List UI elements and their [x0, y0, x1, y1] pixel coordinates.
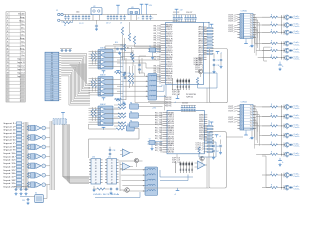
wire gates vertical bus: [120, 52, 122, 106]
svg-text:RB1: RB1: [168, 114, 175, 116]
svg-text:D3: D3: [51, 60, 53, 62]
svg-text:Input 3: Input 3: [4, 129, 17, 132]
svg-text:Input 12: Input 12: [17, 65, 25, 68]
wire resonator: [30, 196, 35, 198]
svg-text:PGD PGC: PGD PGC: [165, 103, 172, 105]
capacitor C17 C18 in M1: [212, 59, 213, 61]
svg-text:R: R: [204, 48, 205, 50]
svg-text:RX_TX2: RX_TX2: [155, 138, 162, 140]
svg-text:6: 6: [241, 27, 242, 29]
svg-text:16: 16: [6, 66, 8, 68]
svg-text:Input 10: Input 10: [4, 152, 17, 155]
wire header J3 stubs: [175, 161, 177, 173]
svg-text:RX_TX2: RX_TX2: [155, 150, 162, 152]
resistor R1: [63, 22, 71, 24]
svg-text:D1: D1: [51, 55, 53, 57]
svg-text:U14: U14: [108, 157, 111, 159]
connector table P2 top right: [237, 10, 255, 39]
power flag +5V: [116, 4, 120, 6]
connector J1: [56, 10, 65, 21]
svg-text:COLL_2: COLL_2: [196, 143, 204, 145]
svg-text:OUT_n: OUT_n: [228, 110, 236, 112]
svg-text:D9: D9: [51, 74, 53, 76]
svg-text:Input 17: Input 17: [4, 175, 17, 178]
wire loop rows 5-6: [264, 46, 271, 48]
svg-text:15: 15: [6, 62, 8, 64]
svg-text:RX_TX2: RX_TX2: [155, 132, 162, 134]
svg-text:ICSP_CLK: ICSP_CLK: [172, 158, 180, 160]
svg-text:R: R: [204, 45, 205, 47]
resistor R11 pullup: [128, 73, 130, 84]
svg-text:R1: R1: [64, 25, 66, 27]
svg-text:D13: D13: [51, 83, 54, 85]
svg-text:CON10: CON10: [241, 10, 247, 12]
svg-text:RD1: RD1: [199, 38, 204, 40]
svg-text:3: 3: [7, 21, 8, 23]
wire staircase: [89, 128, 117, 130]
resistor R32 filter: [118, 122, 126, 124]
svg-text:Input 11: Input 11: [4, 155, 17, 158]
svg-text:OUT_n: OUT_n: [228, 106, 236, 108]
svg-text:RC0: RC0: [199, 36, 204, 38]
ground flag top drivers: [278, 64, 282, 66]
svg-text:2: 2: [7, 17, 8, 19]
svg-text:10: 10: [241, 37, 243, 39]
svg-text:9: 9: [241, 128, 242, 130]
svg-text:D0: D0: [51, 53, 53, 55]
svg-text:C18: C18: [217, 65, 220, 67]
capacitor bank C6-C8: [107, 15, 109, 17]
svg-text:RD1: RD1: [199, 45, 204, 47]
op-amp U15B: [122, 163, 129, 171]
power flag below M1: [176, 98, 180, 100]
crystal Y1: [150, 48, 156, 52]
transistor Q8b: [125, 188, 130, 193]
svg-text:RC2/CCP: RC2/CCP: [166, 64, 173, 66]
resistor R8: [121, 27, 123, 35]
svg-text:Input 13: Input 13: [4, 162, 17, 165]
wire RP1 feed: [208, 23, 210, 28]
svg-text:RX_TX2: RX_TX2: [155, 136, 162, 138]
svg-text:Input 18: Input 18: [4, 179, 17, 182]
svg-text:RX_TX2: RX_TX2: [155, 145, 162, 147]
output drivers Q10-Q17 bottom: [262, 104, 300, 191]
svg-text:10: 10: [6, 45, 8, 47]
regulator U2: [91, 8, 102, 15]
svg-text:RB1: RB1: [168, 145, 175, 147]
IC U13 DIP: [89, 157, 103, 185]
wire gates to U1 upper: [121, 56, 160, 58]
svg-text:Input 12: Input 12: [4, 159, 17, 162]
svg-text:OSC1: OSC1: [166, 45, 173, 47]
svg-text:Input 4: Input 4: [4, 132, 17, 135]
capacitor C19 C20 gates: [123, 72, 124, 74]
svg-text:ICSP_CLK: ICSP_CLK: [172, 162, 180, 164]
svg-text:D10: D10: [51, 76, 54, 78]
svg-text:8: 8: [7, 38, 8, 40]
svg-text:17: 17: [159, 62, 161, 64]
svg-text:5: 5: [7, 27, 8, 29]
svg-text:TQFP-44: TQFP-44: [186, 97, 193, 99]
svg-text:Input 16: Input 16: [4, 172, 17, 175]
svg-text:RC2/CCP: RC2/CCP: [166, 48, 173, 50]
svg-text:RX_TX1: RX_TX1: [154, 66, 161, 68]
svg-text:+5: +5: [138, 17, 140, 19]
svg-text:RX_TX1: RX_TX1: [154, 38, 161, 40]
resistor array RN2 dashed: [53, 119, 67, 124]
wire K2 to U1: [159, 75, 161, 77]
svg-text:Input 11: Input 11: [18, 61, 26, 64]
IC U1 microcontroller: [159, 23, 206, 85]
svg-text:R: R: [204, 129, 205, 131]
svg-text:RB7/PGD: RB7/PGD: [166, 68, 173, 70]
wire M2 into box: [160, 176, 193, 178]
svg-text:Input 15: Input 15: [4, 169, 17, 172]
wire bottom rail: [63, 19, 179, 21]
svg-text:C33: C33: [113, 150, 116, 152]
svg-text:+5: +5: [152, 17, 154, 19]
svg-text:1: 1: [241, 14, 242, 16]
svg-text:RX_TX2: RX_TX2: [155, 122, 162, 124]
svg-text:R: R: [204, 149, 205, 151]
svg-text:D15: D15: [51, 88, 54, 90]
wire far bus bend to DIPs: [63, 172, 90, 183]
svg-text:7: 7: [7, 34, 8, 36]
svg-text:RX_TX2: RX_TX2: [155, 148, 162, 150]
svg-text:RC2/CCP: RC2/CCP: [166, 80, 173, 82]
wire M2 to P3: [226, 136, 243, 138]
svg-text:RC0: RC0: [199, 117, 204, 119]
svg-text:14: 14: [161, 141, 163, 143]
svg-text:U3: U3: [131, 7, 133, 9]
svg-text:COLL_1: COLL_1: [195, 67, 203, 69]
svg-text:OUT_n: OUT_n: [228, 20, 236, 22]
svg-text:Dir-: Dir-: [21, 52, 25, 54]
svg-text:R: R: [204, 39, 205, 41]
svg-text:14: 14: [159, 55, 161, 57]
resistor R5: [128, 33, 130, 41]
IC U16 microcontroller: [161, 110, 208, 153]
svg-text:OUT_n: OUT_n: [228, 25, 236, 27]
cluster above blocks: [116, 48, 117, 50]
svg-text:OSC1: OSC1: [166, 78, 173, 80]
op-amp U17: [198, 161, 206, 169]
svg-text:OUT_n: OUT_n: [228, 121, 236, 123]
wire gates to K2: [121, 75, 146, 77]
svg-text:RB1: RB1: [166, 75, 173, 77]
svg-text:12: 12: [6, 52, 8, 54]
svg-text:3: 3: [241, 111, 242, 113]
svg-text:Input 9: Input 9: [4, 149, 17, 152]
wire U1 top feed: [204, 22, 210, 24]
svg-text:D19: D19: [51, 97, 54, 99]
svg-text:D8: D8: [51, 72, 53, 74]
svg-text:13: 13: [6, 55, 8, 57]
svg-text:D17: D17: [51, 92, 54, 94]
svg-text:C1 C2: C1 C2: [79, 23, 84, 25]
svg-text:RC2/CCP: RC2/CCP: [168, 119, 175, 121]
svg-text:C9: C9: [120, 23, 122, 25]
capacitor C30 C31: [26, 199, 27, 201]
wire RP2 feed: [208, 120, 210, 126]
resistor R31 filter: [118, 113, 126, 115]
svg-text:C17: C17: [217, 60, 220, 62]
svg-text:D20: D20: [51, 99, 54, 101]
svg-text:RX_TX1: RX_TX1: [154, 57, 161, 59]
svg-text:FB: FB: [130, 120, 132, 122]
input terminal rows: [4, 122, 25, 189]
capacitor C5 below U2: [95, 25, 96, 27]
filter FB1: [126, 126, 134, 131]
svg-text:C41 C42: C41 C42: [182, 103, 188, 105]
svg-text:R: R: [204, 132, 205, 134]
svg-text:2: 2: [241, 17, 242, 19]
svg-text:Input 13: Input 13: [17, 68, 25, 71]
pin header J2 2x4: [177, 79, 190, 91]
svg-text:R: R: [204, 42, 205, 44]
regulator U3: [128, 9, 140, 15]
svg-text:RX_TX1: RX_TX1: [154, 70, 161, 72]
svg-text:C21 C22: C21 C22: [173, 12, 179, 14]
svg-text:C47: C47: [216, 151, 219, 153]
svg-text:Step+: Step+: [19, 20, 25, 23]
svg-text:18: 18: [159, 64, 161, 66]
svg-text:D18: D18: [51, 95, 54, 97]
svg-text:+5: +5: [220, 53, 222, 55]
svg-text:RC0: RC0: [199, 123, 204, 125]
wire fan P2 to drivers: [253, 15, 271, 58]
svg-text:D14: D14: [51, 85, 54, 87]
svg-text:D6: D6: [51, 67, 53, 69]
ground U13: [93, 188, 95, 190]
svg-text:19: 19: [161, 152, 163, 154]
capacitors above U14: [108, 149, 109, 151]
svg-text:Step-: Step-: [20, 16, 25, 19]
svg-text:RC0: RC0: [199, 50, 204, 52]
resonator X2: [35, 195, 44, 203]
svg-text:R: R: [204, 126, 205, 128]
svg-text:9: 9: [7, 41, 8, 43]
power flag M2: [215, 134, 219, 136]
capacitors above U5: [60, 50, 61, 52]
svg-text:7: 7: [241, 29, 242, 31]
svg-text:RD1: RD1: [199, 31, 204, 33]
IC U14 DIP: [105, 157, 119, 185]
svg-text:RX_TX2: RX_TX2: [155, 130, 162, 132]
svg-text:R: R: [204, 140, 205, 142]
svg-text:RX_TX1: RX_TX1: [154, 43, 161, 45]
svg-text:OUT_n: OUT_n: [228, 14, 236, 16]
svg-text:R: R: [204, 143, 205, 145]
svg-text:OSC1: OSC1: [168, 132, 175, 134]
resistor R10 pullup: [132, 54, 134, 62]
svg-text:RD1: RD1: [199, 52, 204, 54]
svg-text:D12: D12: [51, 81, 54, 83]
svg-text:FB: FB: [130, 111, 132, 113]
svg-text:RX_TX1: RX_TX1: [154, 35, 161, 37]
wire K1 to U14: [119, 160, 143, 162]
svg-text:X2: X2: [35, 193, 37, 195]
svg-text:Oe-: Oe-: [21, 55, 25, 57]
resistor R6: [133, 36, 135, 44]
svg-text:Y2: Y2: [149, 138, 151, 140]
svg-text:RB1: RB1: [168, 130, 175, 132]
capacitor C46 C47 in M2: [212, 145, 213, 147]
svg-text:COLL_1: COLL_1: [195, 65, 203, 67]
wire loop rows 7-8 bottom: [265, 156, 267, 188]
wire crystal feeds: [138, 56, 140, 73]
svg-text:18: 18: [6, 73, 8, 75]
svg-text:Enable: Enable: [18, 14, 25, 16]
svg-text:6: 6: [241, 120, 242, 122]
resistor R30 filter: [118, 104, 126, 106]
svg-text:Oe-: Oe-: [21, 45, 25, 47]
resistor R20: [116, 128, 125, 130]
svg-text:PGD PGC: PGD PGC: [165, 99, 172, 101]
input right bus: [49, 121, 51, 190]
svg-text:11: 11: [7, 48, 9, 50]
svg-text:OUT_n: OUT_n: [228, 29, 236, 31]
resistor R12 pullup: [131, 73, 133, 84]
svg-text:PGD PGC: PGD PGC: [165, 101, 172, 103]
wire M1 bottom left: [135, 102, 209, 104]
svg-text:R: R: [204, 146, 205, 148]
svg-text:RX_TX2: RX_TX2: [155, 115, 162, 117]
svg-text:RB7/PGD: RB7/PGD: [166, 36, 173, 38]
power flag below M2: [176, 190, 180, 192]
svg-text:100n: 100n: [76, 12, 80, 14]
svg-text:OSC1: OSC1: [168, 117, 175, 119]
svg-text:Input 2: Input 2: [4, 125, 17, 128]
svg-text:OUT_n: OUT_n: [228, 108, 236, 110]
power flag RN2: [61, 112, 65, 114]
svg-text:4: 4: [7, 24, 8, 26]
pin header J3 2x4: [180, 162, 193, 174]
resistor R18 below U16: [198, 147, 200, 153]
transistor Q7 in M1: [198, 69, 202, 73]
power flag above caps: [175, 8, 179, 10]
svg-text:R14: R14: [115, 42, 118, 44]
svg-text:3: 3: [241, 19, 242, 21]
svg-text:D5: D5: [51, 65, 53, 67]
svg-text:14: 14: [6, 59, 8, 61]
wire top rail: [65, 14, 91, 16]
svg-text:C6 C7: C6 C7: [106, 23, 111, 25]
svg-text:6: 6: [7, 31, 8, 33]
svg-text:8: 8: [241, 32, 242, 34]
svg-text:C30: C30: [22, 200, 25, 202]
svg-text:R: R: [204, 151, 205, 153]
svg-text:Input 6: Input 6: [4, 139, 17, 142]
svg-text:OUT_n: OUT_n: [228, 119, 236, 121]
capacitor C28: [138, 64, 139, 66]
wire header stubs: [172, 78, 174, 90]
module box M1: [209, 49, 227, 103]
capacitor bank C41-C45: [181, 104, 196, 106]
svg-text:7: 7: [241, 123, 242, 125]
svg-text:RX_TX1: RX_TX1: [154, 40, 161, 42]
power flag below P3: [244, 134, 248, 136]
svg-text:Dir-: Dir-: [21, 24, 25, 26]
transistor Q8: [134, 158, 138, 162]
svg-text:D7: D7: [51, 69, 53, 71]
svg-text:OUT_n: OUT_n: [228, 31, 236, 33]
module box M2: [209, 132, 226, 188]
svg-text:R: R: [204, 134, 205, 136]
capacitor C12 C13: [142, 15, 144, 17]
connector table P1 (parallel port pins): [6, 12, 25, 103]
svg-text:CON12: CON12: [241, 101, 247, 103]
svg-text:RX_TX2: RX_TX2: [155, 117, 162, 119]
svg-text:PGD PGC: PGD PGC: [165, 97, 172, 99]
svg-text:RC2/CCP: RC2/CCP: [166, 31, 173, 33]
power flag +3V3: [140, 3, 144, 5]
svg-text:Input 5: Input 5: [4, 135, 17, 138]
IC U5 buffer array: [45, 52, 61, 101]
svg-text:RX_TX1: RX_TX1: [154, 28, 161, 30]
wire M2 bottom ext: [144, 187, 209, 189]
ground below Y1: [152, 52, 154, 56]
op-amp U15A: [122, 149, 129, 157]
svg-text:4: 4: [241, 22, 242, 24]
svg-text:Step-: Step-: [20, 47, 25, 50]
svg-text:RD1: RD1: [199, 119, 204, 121]
capacitors input filter: [14, 189, 15, 191]
svg-text:17: 17: [6, 69, 8, 71]
svg-text:Input 1: Input 1: [4, 122, 17, 125]
inductor array K2: [146, 74, 159, 101]
svg-text:RX_TX1: RX_TX1: [154, 33, 161, 35]
svg-text:D4: D4: [51, 62, 53, 64]
svg-text:OSC1: OSC1: [168, 147, 175, 149]
svg-text:RC0: RC0: [199, 43, 204, 45]
svg-text:5: 5: [241, 117, 242, 119]
input op-amps U12A-G: [27, 125, 50, 188]
svg-text:RB7/PGD: RB7/PGD: [168, 123, 175, 125]
resistor R21 below DIPs: [97, 188, 105, 190]
svg-text:4: 4: [241, 114, 242, 116]
power flag below P2: [244, 43, 248, 45]
svg-text:R: R: [204, 51, 205, 53]
svg-text:C46: C46: [216, 146, 219, 148]
svg-text:RC2/CCP: RC2/CCP: [168, 134, 175, 136]
svg-text:Input 14: Input 14: [17, 72, 25, 75]
input bus vertical: [23, 122, 25, 190]
svg-text:Input 19: Input 19: [4, 182, 17, 185]
svg-text:U13: U13: [92, 157, 95, 159]
svg-text:OSC1: OSC1: [166, 62, 173, 64]
connector table P3 bottom right: [237, 101, 255, 130]
svg-text:RX_TX1: RX_TX1: [154, 26, 161, 28]
transistor Q9 in M2: [200, 156, 204, 160]
svg-text:OUT_n: OUT_n: [228, 117, 236, 119]
svg-text:5: 5: [241, 24, 242, 26]
svg-text:RB7/PGD: RB7/PGD: [168, 139, 175, 141]
capacitor C14 C15 C16: [146, 15, 148, 17]
svg-text:Input 20: Input 20: [4, 185, 17, 188]
svg-text:RB7/PGD: RB7/PGD: [166, 52, 173, 54]
svg-text:D11: D11: [51, 79, 54, 81]
resistor stack RP2: [204, 126, 214, 154]
power flag M1: [216, 51, 220, 53]
svg-text:+5: +5: [174, 102, 176, 104]
wire fan P3 to drivers: [253, 106, 271, 154]
svg-text:R: R: [204, 137, 205, 139]
resistor R7: [130, 52, 132, 59]
svg-text:RX_TX2: RX_TX2: [155, 143, 162, 145]
svg-text:C26 C27: C26 C27: [186, 12, 192, 14]
svg-text:RX_TX2: RX_TX2: [155, 120, 162, 122]
